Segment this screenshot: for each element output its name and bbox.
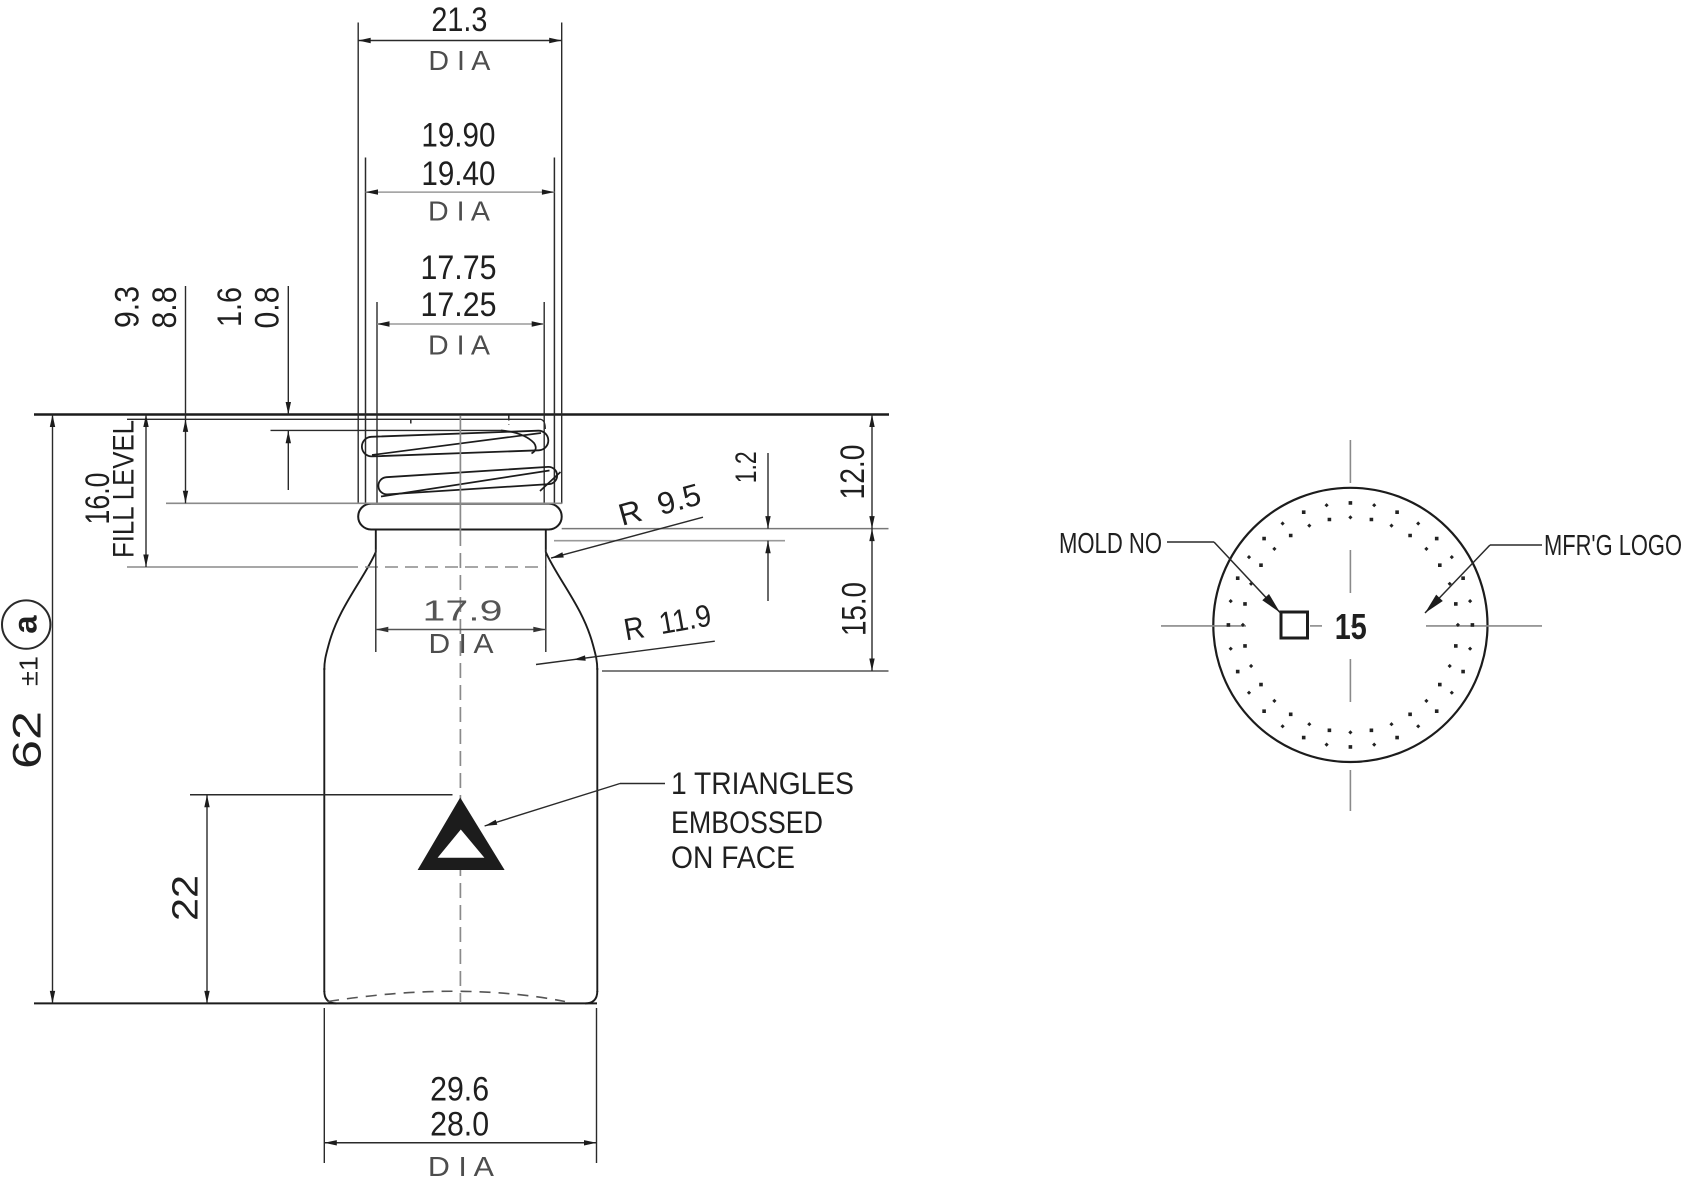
dim 28.0 line with arrows	[324, 1142, 596, 1144]
bottle body right wall	[596, 668, 598, 992]
bottom view outline circle	[1213, 488, 1487, 762]
fill level line dashed part across neck	[345, 566, 546, 568]
extension lines 17.75 DIA / thread root walls	[376, 302, 378, 504]
svg-text:D I A: D I A	[428, 195, 490, 226]
svg-text:15.0: 15.0	[836, 582, 874, 636]
base line / 62 datum baseline	[34, 1002, 597, 1004]
svg-text:D I A: D I A	[428, 45, 490, 76]
thread hidden start dashes	[410, 420, 412, 428]
dim 62 stem and arrows	[52, 415, 54, 1004]
embossed triangle symbol	[418, 798, 505, 871]
bottle finish top edge line	[127, 419, 545, 429]
svg-text:EMBOSSED: EMBOSSED	[671, 804, 823, 840]
dim 17.25 line with arrows	[377, 323, 544, 325]
svg-text:a: a	[7, 615, 44, 634]
thread back pass line 2	[381, 471, 550, 497]
dim 22 stem and arrows	[206, 795, 208, 1004]
shoulder tangent line (15.0 ref)	[602, 670, 889, 672]
svg-text:28.0: 28.0	[430, 1105, 489, 1143]
base pushup dashed arc	[328, 991, 565, 1001]
svg-text:19.90: 19.90	[421, 117, 495, 155]
bottom view vertical centerline	[1349, 440, 1351, 483]
svg-text:19.40: 19.40	[421, 155, 495, 193]
bottle right neck and shoulder outline	[546, 531, 598, 671]
svg-text:29.6: 29.6	[430, 1071, 489, 1109]
dim 29.6/28.0 extension lines	[323, 1008, 325, 1163]
thread start reference line and run-out crest	[271, 429, 502, 431]
bottle left neck and shoulder outline	[324, 531, 376, 671]
svg-text:±1: ±1	[14, 656, 44, 686]
svg-text:ON FACE: ON FACE	[671, 839, 795, 875]
extension lines 21.3 DIA / bead sides	[357, 23, 359, 504]
MFRG LOGO leader	[1490, 544, 1542, 546]
dim 1.6/0.8 stem and arrows (outside)	[287, 286, 289, 415]
bottle bottom right corner	[585, 991, 597, 1003]
dim 22 tick line	[190, 794, 453, 796]
svg-text:21.3: 21.3	[431, 1, 487, 39]
dim 21.3 line with arrows	[358, 40, 562, 42]
vertical centerline of bottle	[459, 416, 461, 531]
svg-text:1.2: 1.2	[730, 451, 763, 483]
svg-text:FILL LEVEL: FILL LEVEL	[108, 420, 141, 558]
fill level line solid part	[127, 566, 345, 568]
svg-text:22: 22	[165, 875, 206, 921]
svg-text:MOLD NO: MOLD NO	[1059, 528, 1162, 560]
lower neck grey line (1.2 ref)	[554, 540, 785, 542]
thread back pass line 1	[372, 433, 541, 455]
bottom view horizontal centerline	[1161, 625, 1246, 627]
bottle top finish datum line	[34, 413, 889, 416]
svg-text:17.25: 17.25	[421, 286, 497, 324]
dim 9.3/8.8 stem and arrows	[185, 286, 187, 503]
dim 1.2 stems and arrows (outside)	[767, 453, 769, 529]
thread bottom grey line (8.8/9.3 ref)	[166, 502, 562, 504]
thread front pass 2 capsule	[378, 467, 557, 495]
svg-text:15: 15	[1335, 606, 1367, 647]
bottle bottom left corner	[324, 991, 336, 1003]
svg-text:62: 62	[6, 711, 50, 769]
svg-text:8.8: 8.8	[146, 287, 184, 329]
dim 19.40 line with arrows	[366, 191, 555, 193]
svg-text:D I A: D I A	[428, 1151, 494, 1182]
extension lines 19.90 DIA / finish outer walls	[365, 158, 367, 504]
dim 62 +-1 circled a note	[2, 600, 50, 648]
thread run-out line bottom right	[540, 472, 561, 491]
svg-text:D I A: D I A	[428, 330, 490, 361]
bead bottom line to 12.0 dim	[562, 528, 889, 530]
MOLD NO leader	[1167, 541, 1214, 543]
svg-text:17.9: 17.9	[423, 596, 503, 628]
dim 16.0 stem and arrows	[145, 415, 147, 568]
bottle body left wall	[323, 668, 325, 992]
thread front pass 1 capsule	[362, 431, 548, 457]
mold number square	[1281, 612, 1308, 638]
dim 17.9 line with arrows	[376, 629, 546, 631]
svg-text:1.6: 1.6	[211, 287, 249, 327]
svg-text:MFR'G LOGO: MFR'G LOGO	[1544, 530, 1682, 562]
knurl dot pattern rings	[1227, 501, 1475, 749]
svg-text:12.0: 12.0	[834, 445, 872, 500]
triangle note leader	[485, 784, 620, 827]
dim 12.0/15.0 stem and arrows	[871, 415, 873, 672]
svg-text:0.8: 0.8	[249, 287, 287, 329]
dim 17.9 extension lines	[375, 549, 377, 652]
svg-text:9.3: 9.3	[109, 286, 147, 328]
svg-text:D I A: D I A	[429, 628, 494, 659]
neck bead capsule	[358, 504, 562, 530]
svg-text:1 TRIANGLES: 1 TRIANGLES	[671, 765, 854, 801]
svg-text:17.75: 17.75	[421, 249, 497, 287]
